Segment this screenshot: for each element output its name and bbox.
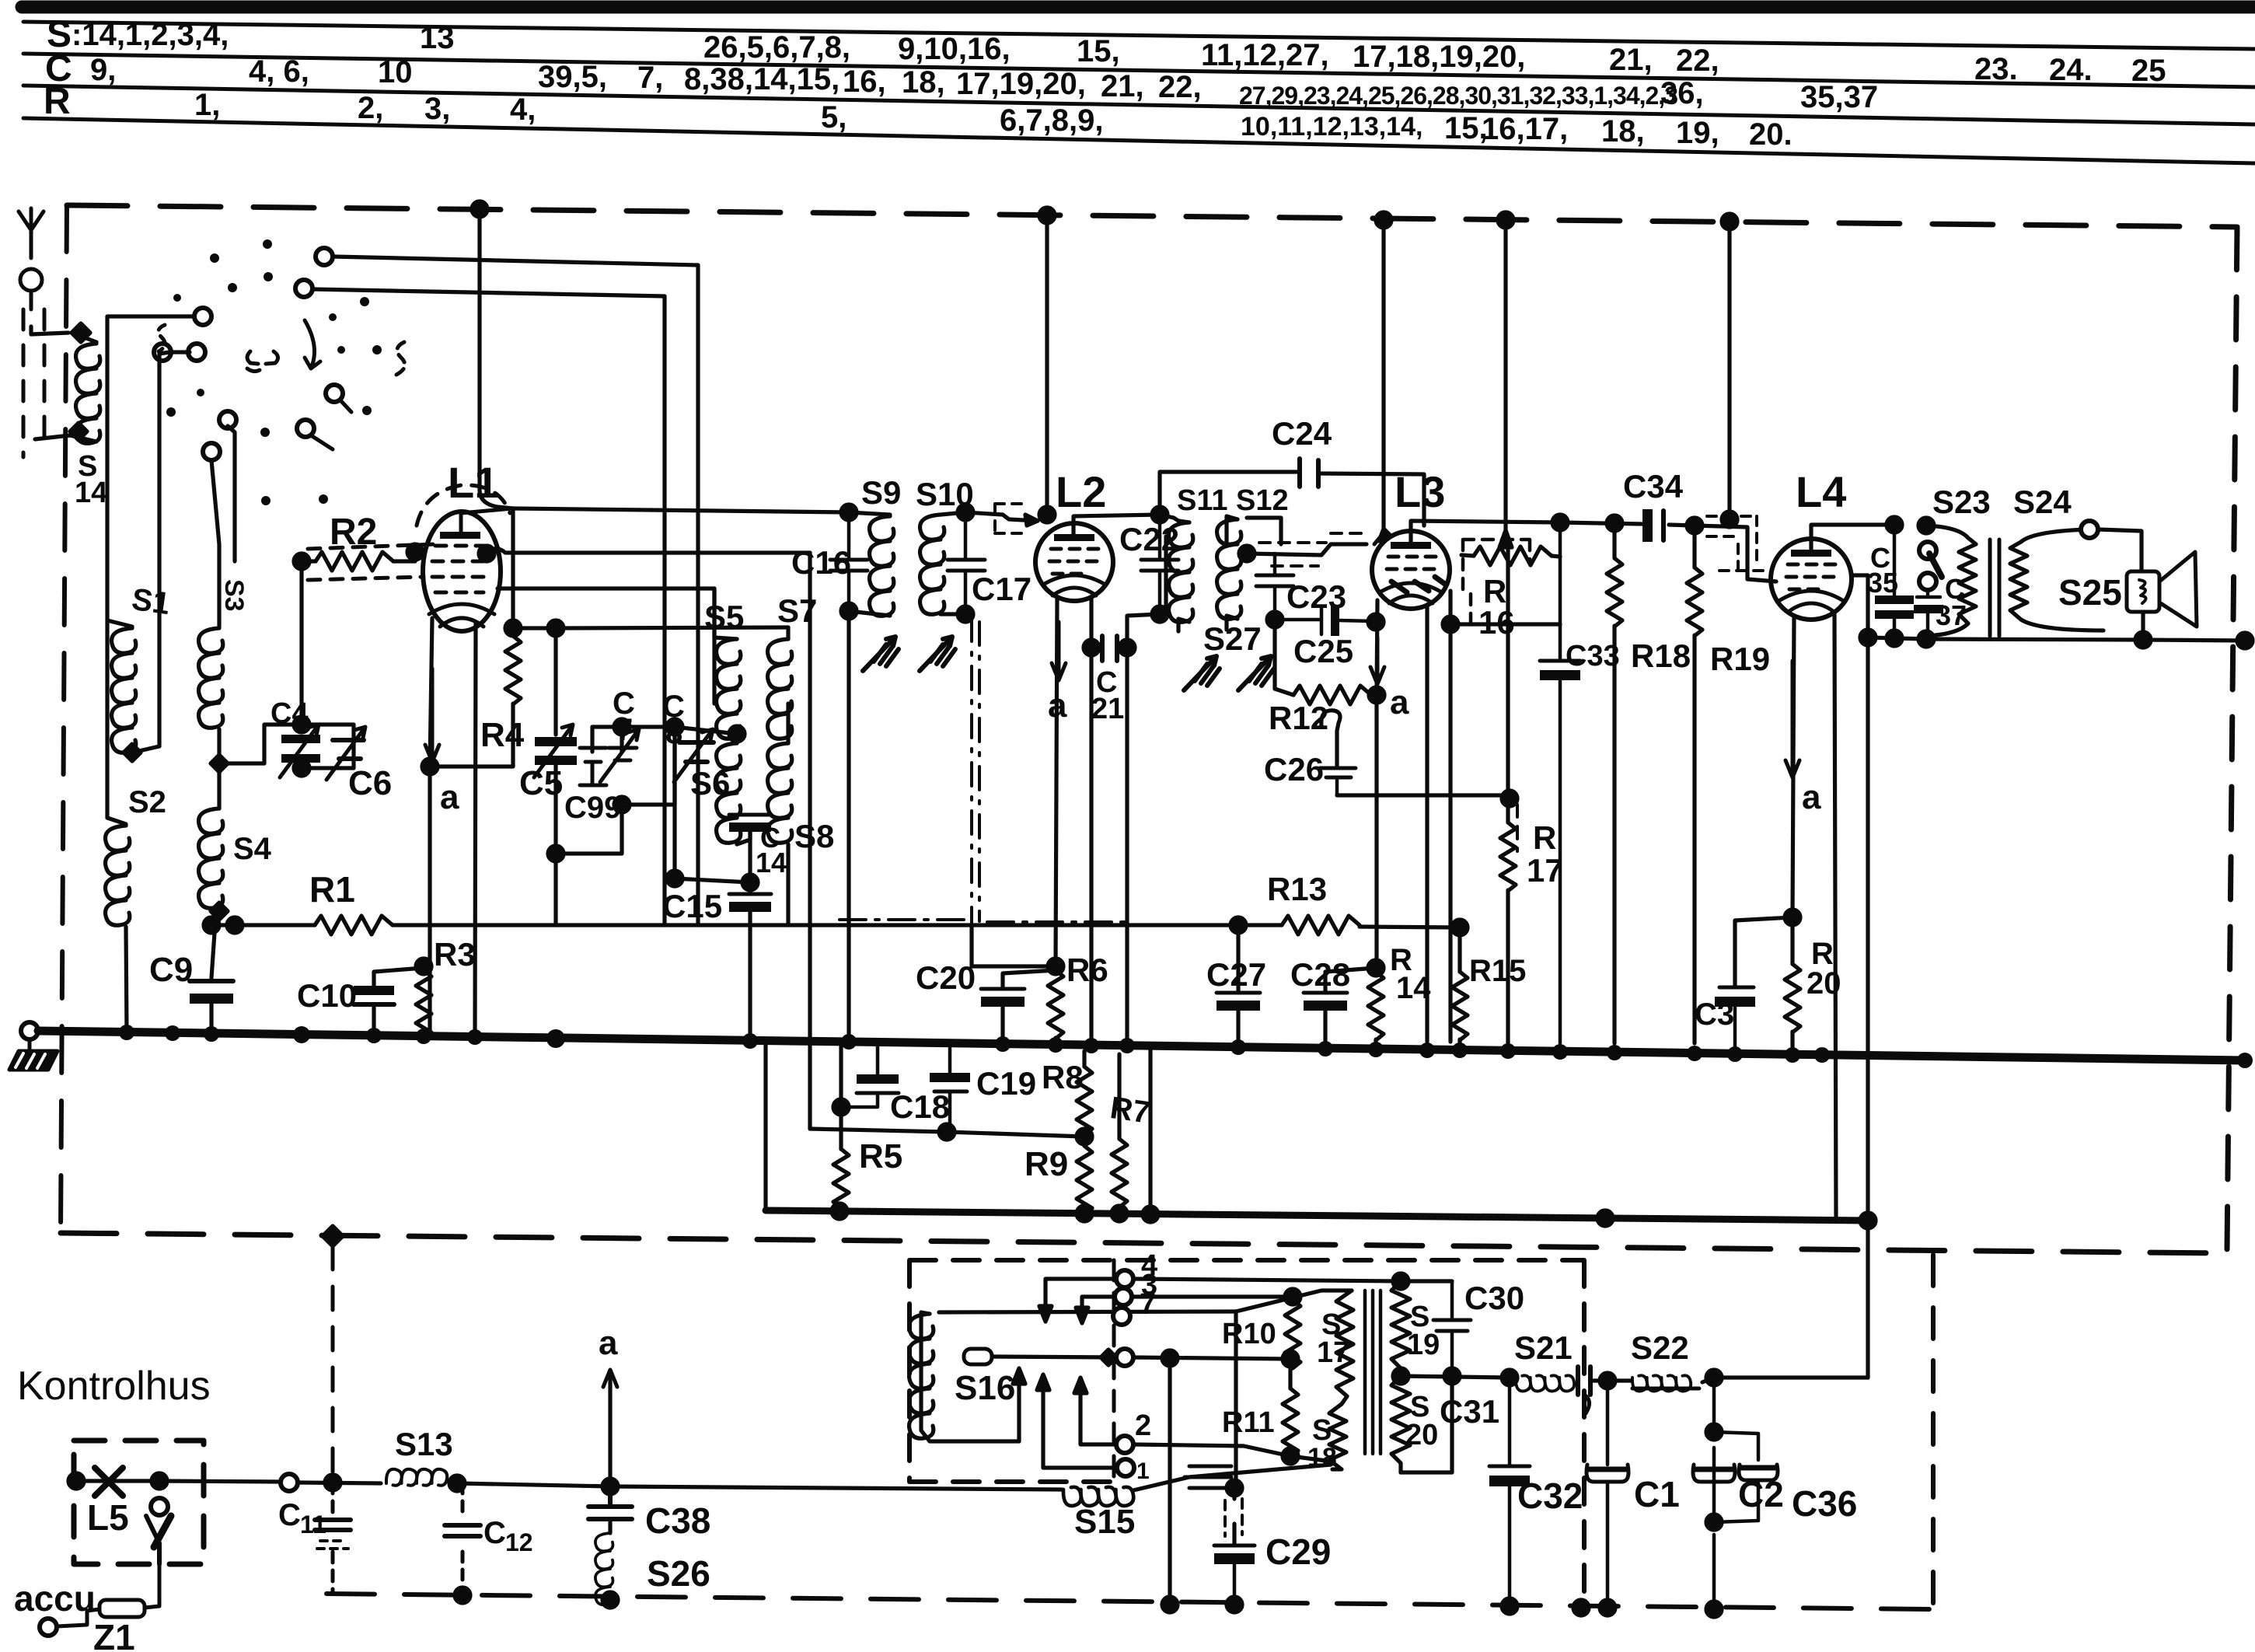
arrow a bottom (603, 1370, 617, 1415)
label C12 (483, 1516, 533, 1556)
svg-text:C31: C31 (1440, 1393, 1499, 1430)
capacitor C7 (600, 729, 639, 782)
svg-text:R10: R10 (1222, 1318, 1276, 1350)
node R1 left (204, 917, 219, 933)
node S5 line (548, 620, 564, 636)
wiper arrows up (1013, 1368, 1116, 1468)
wire L2 plate to C22 node (1073, 515, 1160, 534)
lower area bottom dashed line (326, 1594, 1933, 1609)
coil S22 (1632, 1375, 1691, 1391)
wire center contact to R10 (992, 1357, 1289, 1359)
node R2 left (294, 554, 309, 569)
coil S14 (72, 333, 96, 342)
capacitor C25 (1275, 605, 1374, 636)
label C8 (662, 690, 685, 750)
strip line 3 (23, 86, 2255, 124)
resistor R15 (1452, 972, 1468, 1040)
resistor R8 (1082, 1051, 1086, 1067)
wire S15 right with shield (1133, 1465, 1331, 1490)
svg-text:S24: S24 (2013, 484, 2072, 520)
svg-text:24.: 24. (2049, 53, 2093, 87)
resistor R5 (839, 1046, 843, 1149)
resistor R7 (1117, 1054, 1121, 1139)
capacitor C28 (1304, 993, 1347, 1011)
svg-text:C29: C29 (1265, 1532, 1331, 1572)
wire C29 riser (1234, 1311, 1236, 1545)
node S6 top (667, 719, 682, 735)
node R10 top (1285, 1289, 1300, 1304)
label S19 (1407, 1301, 1440, 1361)
dash-dot wire S12 to L3 grid (1247, 544, 1367, 555)
svg-text:R7: R7 (1108, 1091, 1153, 1130)
wire S5 riser (712, 589, 716, 637)
wire top border to R16 (1503, 220, 1507, 535)
node C18 (833, 1099, 849, 1115)
label C37 (1936, 573, 1967, 631)
svg-text:C3: C3 (1695, 997, 1734, 1032)
node C25 right (1368, 614, 1384, 630)
dashed S mark right (396, 342, 405, 375)
node R13 right (1452, 920, 1468, 935)
main box top dashed border (67, 205, 2237, 227)
wire S20 bottom (1401, 1376, 1452, 1472)
svg-text:20: 20 (1405, 1419, 1438, 1451)
svg-text:S4: S4 (233, 832, 272, 866)
svg-text:18,: 18, (902, 65, 945, 100)
wire S16 top (939, 1311, 1236, 1312)
wire S1 bottom riser (132, 352, 190, 753)
svg-text:9,: 9, (90, 53, 116, 87)
transformer S20 zigzag (1391, 1376, 1410, 1472)
lower area right dashed edge (1931, 1255, 1936, 1609)
wire C20 (1003, 970, 1056, 1042)
inner box left edge (763, 1042, 767, 1210)
resistor R2 (316, 552, 393, 571)
rotary dial dots (166, 239, 382, 505)
svg-text:15,: 15, (1077, 34, 1120, 68)
resistor R19 (1692, 526, 1696, 568)
S27 slug arrows (1184, 656, 1220, 690)
coil S3 (199, 628, 223, 728)
wire contact center vert (1168, 1358, 1171, 1605)
wire top border to L4 line (1727, 222, 1731, 519)
node L4 plate line (1887, 517, 1902, 533)
coil S8 (768, 743, 792, 843)
capacitor C34 (1642, 509, 1663, 542)
node L5 switch top (152, 1473, 167, 1489)
wire C10 top to R3 (374, 968, 424, 986)
capacitor C18 (841, 1046, 899, 1107)
S24 terminal circle (2081, 521, 2098, 538)
capacitor C22 (1141, 515, 1178, 614)
antenna (19, 208, 44, 309)
coil S7 (768, 639, 792, 739)
anode arrow a L3 (1370, 637, 1384, 684)
svg-text:23.: 23. (1974, 52, 2018, 86)
svg-text:S3: S3 (219, 579, 249, 612)
coil S1 (112, 628, 136, 753)
wire contact to left and down to S1 S2 (107, 316, 194, 824)
capacitor C36 (1714, 1432, 1778, 1522)
node S19 top (1393, 1273, 1409, 1289)
capacitor C29 (1214, 1545, 1255, 1603)
wire S13 to C38 (457, 1483, 610, 1486)
svg-text:12: 12 (505, 1528, 533, 1556)
capacitor C99 (580, 727, 606, 785)
svg-text:16,: 16, (843, 65, 886, 99)
node C7 junctions (614, 719, 630, 735)
wire C14 node left (675, 727, 750, 882)
wire plate line to C34 (1560, 522, 1695, 526)
svg-text:L3: L3 (1395, 467, 1445, 516)
trimmer slug arrows S9 S10 (863, 637, 899, 671)
node C34 right (1687, 518, 1702, 533)
node S26 bottom (602, 1592, 618, 1608)
node C4 top (294, 717, 309, 732)
strip line 1 (23, 22, 2255, 49)
capacitor C38 (588, 1486, 632, 1519)
wire C5 riser (553, 628, 557, 735)
wire L3 plate up right (1411, 521, 1560, 542)
capacitor C8 (674, 729, 714, 782)
coil S13 (386, 1469, 447, 1486)
coil S10 (941, 512, 965, 515)
label C35 (1867, 542, 1898, 599)
svg-text:R13: R13 (1267, 871, 1327, 907)
capacitor C17 (948, 512, 985, 614)
coil S2 (106, 826, 130, 925)
node S10 top (958, 505, 973, 520)
contact 3 (1115, 1288, 1132, 1305)
strip line 4 (23, 118, 2255, 163)
wire C22 bottom to down line (1127, 614, 1160, 1042)
capacitor C4 (280, 725, 320, 777)
node S22 right (1706, 1370, 1722, 1385)
node S14 bottom (70, 423, 87, 440)
wire C26 to R17 line (1337, 793, 1510, 797)
capacitor C21 (1091, 636, 1127, 661)
coil S9 (849, 512, 890, 515)
contact center (1116, 1349, 1133, 1366)
svg-text:5,: 5, (821, 100, 846, 134)
capacitor C10 (354, 986, 394, 1004)
svg-text:S25: S25 (2058, 572, 2122, 613)
main box bottom dashed border (61, 1233, 2227, 1253)
svg-text:S26: S26 (647, 1553, 710, 1594)
resistor R6 (1048, 970, 1063, 1039)
svg-text:17: 17 (1527, 852, 1563, 889)
node C33 top (1552, 515, 1568, 530)
svg-text:S23: S23 (1932, 484, 1991, 520)
dashed link box (995, 504, 1026, 533)
coil S12 (1217, 519, 1241, 619)
svg-text:10: 10 (378, 55, 413, 89)
dash-dot shield S10 to AVC (972, 618, 979, 925)
svg-text:S2: S2 (128, 785, 166, 819)
svg-text:S9: S9 (861, 474, 901, 511)
svg-text:C36: C36 (1792, 1483, 1857, 1524)
node R14 top (1368, 960, 1384, 976)
node top border L1 riser (472, 201, 487, 217)
shield hatches (1185, 1466, 1231, 1488)
R16 wiper arrow (1499, 530, 1512, 547)
svg-text:C: C (278, 1498, 301, 1532)
node R8 R9 (1077, 1129, 1092, 1144)
dash-dot grid link L4 (1695, 526, 1776, 582)
wire S11 top (1160, 515, 1178, 521)
node R11 bottom (1283, 1448, 1298, 1464)
node S14 top (72, 323, 90, 342)
svg-text:S: S (1312, 1414, 1332, 1447)
svg-text:2: 2 (1135, 1409, 1151, 1442)
svg-text:21: 21 (1091, 693, 1124, 725)
node S13 right (449, 1476, 465, 1491)
svg-text:36,: 36, (1660, 76, 1704, 110)
node C21 left right (1084, 640, 1099, 655)
resistor R11 (1288, 1359, 1292, 1388)
svg-text:L5: L5 (87, 1497, 129, 1538)
capacitor C2 (1693, 1378, 1735, 1609)
svg-text:R9: R9 (1025, 1145, 1068, 1183)
tube L1 (423, 508, 513, 631)
wire contact to grid line (228, 426, 235, 561)
label C11 (278, 1498, 326, 1538)
svg-text:3,: 3, (424, 92, 450, 126)
svg-text:11,12,27,: 11,12,27, (1201, 38, 1329, 72)
resistor R1 (315, 916, 393, 934)
wire L3 cathode leads (1377, 591, 1450, 1042)
node R4 top (505, 620, 521, 636)
row R labels (44, 81, 1792, 152)
coil S26 (608, 1519, 612, 1605)
wire grid riser to R2 (299, 561, 303, 725)
svg-text:C16: C16 (791, 544, 851, 581)
label S14 (75, 450, 107, 509)
capacitor C6 (326, 727, 365, 780)
rotary switch contact circles (316, 248, 333, 265)
svg-text:S1: S1 (130, 582, 173, 621)
capacitor C16 (830, 512, 867, 611)
node C11 (325, 1475, 340, 1490)
contact 2 (1116, 1436, 1133, 1453)
capacitor C14 (729, 815, 771, 832)
svg-text:20.: 20. (1749, 117, 1792, 152)
node C5 bottom (548, 846, 564, 861)
wire screen to R16 (1450, 622, 1560, 626)
wire S10 grid link (965, 512, 1038, 521)
svg-text:C33: C33 (1566, 640, 1620, 672)
rotary arrow (305, 320, 320, 368)
label R14 (1390, 943, 1431, 1005)
node C30 bottom (1444, 1368, 1460, 1384)
node S23 top (1918, 518, 1934, 533)
wire contact2 line (1133, 1444, 1332, 1462)
svg-text:S12: S12 (1236, 484, 1289, 517)
switch blade stubs (311, 400, 351, 449)
wire top border to L3 grid (1381, 220, 1385, 529)
dashed shield arc over L1 (417, 485, 510, 526)
svg-text:26,5,6,7,8,: 26,5,6,7,8, (703, 30, 850, 65)
svg-text:25: 25 (2131, 54, 2166, 88)
wire S22 right to border (1702, 1378, 1868, 1382)
tube L2 (1035, 523, 1113, 601)
svg-text:R11: R11 (1222, 1406, 1275, 1439)
terminal main wire (281, 1474, 298, 1491)
resistor R12 (1293, 686, 1371, 704)
strip line 2 (23, 54, 2255, 87)
svg-text:7: 7 (1140, 1288, 1156, 1321)
wire speaker down (2141, 612, 2145, 640)
svg-text:14: 14 (1396, 971, 1431, 1005)
anode arrow a L4 (1785, 661, 1799, 777)
wire L1 screen to right (487, 549, 810, 554)
wire C5 down (553, 765, 557, 925)
bottom rail nodes (1162, 1597, 1178, 1612)
svg-text:17: 17 (1317, 1336, 1349, 1369)
wire C28 (1325, 968, 1376, 1043)
svg-text:a: a (1048, 686, 1067, 725)
svg-text:R6: R6 (1066, 952, 1108, 988)
top border bar (22, 1, 2255, 14)
wire C24 down join (1422, 521, 1426, 526)
capacitor C9 (190, 981, 233, 1004)
wire contact4 to S19 (1133, 1279, 1401, 1281)
wire L1 anode down (430, 618, 432, 1036)
transformer core (1990, 540, 1999, 636)
label R17 (1527, 819, 1563, 889)
capacitor C26 (1320, 768, 1356, 795)
wire contact to S3 (211, 460, 219, 627)
node R13 left (1230, 917, 1246, 933)
capacitor C27 (1217, 993, 1260, 1011)
node R3 top (416, 959, 431, 974)
label C21 (1091, 666, 1124, 725)
svg-text:39,5,: 39,5, (538, 60, 607, 94)
wire L1 heater down (475, 622, 476, 1037)
node C1 top (1600, 1373, 1615, 1388)
tube L4 (1771, 539, 1852, 620)
wire S2 to bus (126, 927, 127, 1034)
node S9 bottom (841, 603, 857, 619)
svg-text:R1: R1 (309, 869, 355, 910)
svg-text:19: 19 (1407, 1329, 1440, 1361)
coil S16 (909, 1314, 934, 1438)
wire inner box right segment (1148, 1048, 1152, 1214)
svg-text:Kontrolhus: Kontrolhus (17, 1364, 211, 1409)
svg-text:9,10,16,: 9,10,16, (898, 32, 1011, 66)
wire S15 main (610, 1486, 1062, 1490)
resistor R20 (1790, 917, 1794, 964)
wire bottom audio line (1868, 637, 2245, 641)
capacitor C32 (1489, 1378, 1530, 1606)
svg-text:11: 11 (300, 1511, 326, 1538)
svg-text:C18: C18 (890, 1088, 950, 1125)
svg-text:6,7,8,9,: 6,7,8,9, (1000, 103, 1103, 138)
svg-text:21,: 21, (1101, 69, 1144, 103)
wire C14 to C15 (748, 882, 752, 894)
node C14 bottom (742, 875, 758, 890)
svg-text:2,: 2, (358, 91, 383, 125)
svg-text:10,11,12,13,14,: 10,11,12,13,14, (1241, 112, 1422, 141)
capacitor C37 (1914, 590, 1943, 639)
svg-text:S13: S13 (395, 1426, 453, 1462)
node C38 (602, 1479, 618, 1494)
ground symbol (9, 1039, 58, 1070)
speaker horn (2159, 552, 2197, 627)
svg-text:1: 1 (1136, 1458, 1150, 1484)
anode current arrow a (425, 669, 439, 762)
svg-text:R3: R3 (434, 936, 476, 973)
inner box bottom thick line (766, 1210, 1868, 1221)
svg-text:C6: C6 (348, 764, 392, 802)
wire S6 bottom to C14 (737, 832, 750, 844)
svg-text:L4: L4 (1796, 467, 1846, 516)
svg-text:18: 18 (1307, 1443, 1337, 1472)
svg-text:S21: S21 (1514, 1329, 1573, 1366)
node C2 taps (1706, 1424, 1722, 1440)
svg-text:4,: 4, (510, 93, 536, 127)
wire S19 top to C30 (1401, 1279, 1452, 1283)
node C32 top (1502, 1370, 1517, 1385)
wire S21 to S22 (1590, 1378, 1631, 1382)
svg-text:R15: R15 (1469, 954, 1526, 988)
capacitor C5 (534, 725, 577, 777)
capacitor C24 wire (1160, 472, 1424, 526)
svg-text:R12: R12 (1269, 700, 1328, 736)
wire L5 internal (76, 1479, 159, 1483)
node L1 screen (479, 546, 494, 561)
svg-text:20: 20 (1806, 966, 1841, 1001)
main box left dashed border (61, 205, 67, 1233)
wire R1 line to R13 (393, 923, 1238, 927)
node S9 C16 (841, 505, 857, 520)
svg-text:4, 6,: 4, 6, (249, 54, 309, 89)
main box right dashed border (2227, 227, 2237, 1252)
svg-text:S16: S16 (955, 1369, 1015, 1407)
resistor R14 (1368, 972, 1384, 1040)
svg-text:C38: C38 (645, 1500, 710, 1541)
contact 7 (1113, 1308, 1130, 1325)
wire plate node across (513, 508, 556, 628)
capacitor C31 (1578, 1367, 1590, 1413)
wire C23 node down to R12 (1275, 620, 1293, 695)
label C7 (613, 686, 635, 747)
transformer S17 zigzag (1336, 1291, 1353, 1404)
resistor R4 (505, 636, 521, 704)
node S4 bottom (211, 903, 228, 920)
svg-text:C30: C30 (1464, 1280, 1524, 1316)
coil S21 (1516, 1375, 1574, 1391)
label C14 (756, 822, 787, 878)
S16 plug (964, 1349, 992, 1364)
row S labels (47, 14, 2166, 88)
node S12 tap (1239, 546, 1255, 561)
transformer S19 zigzag (1391, 1281, 1410, 1368)
row C labels (45, 48, 1878, 114)
label S18 (1307, 1397, 1351, 1472)
coil S6 (717, 743, 741, 843)
wire C9 to bus (209, 1004, 213, 1036)
inner dashed box kontrolhus (909, 1260, 1584, 1605)
svg-text:R: R (1533, 819, 1556, 856)
wire L4 plate top (1811, 525, 1894, 550)
anode arrow a L2 (1052, 622, 1066, 680)
wire L5 to C11 (159, 1481, 280, 1482)
svg-text:14: 14 (75, 477, 107, 509)
svg-text:R5: R5 (859, 1137, 902, 1175)
svg-text:a: a (440, 778, 459, 816)
capacitor C15 (729, 894, 771, 912)
